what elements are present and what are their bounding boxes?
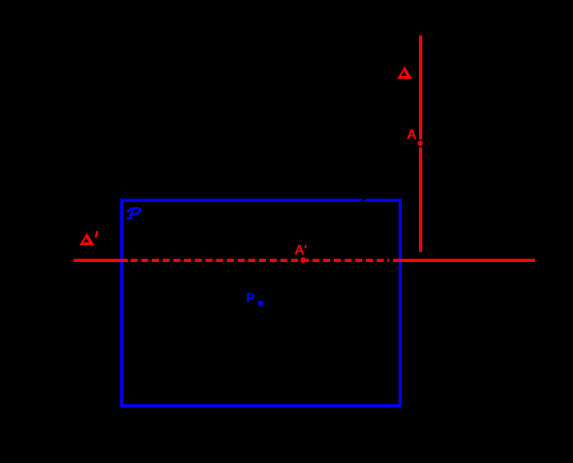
svg-text:A: A [407, 126, 417, 142]
svg-text:A: A [294, 242, 304, 258]
svg-text:P: P [246, 290, 255, 305]
